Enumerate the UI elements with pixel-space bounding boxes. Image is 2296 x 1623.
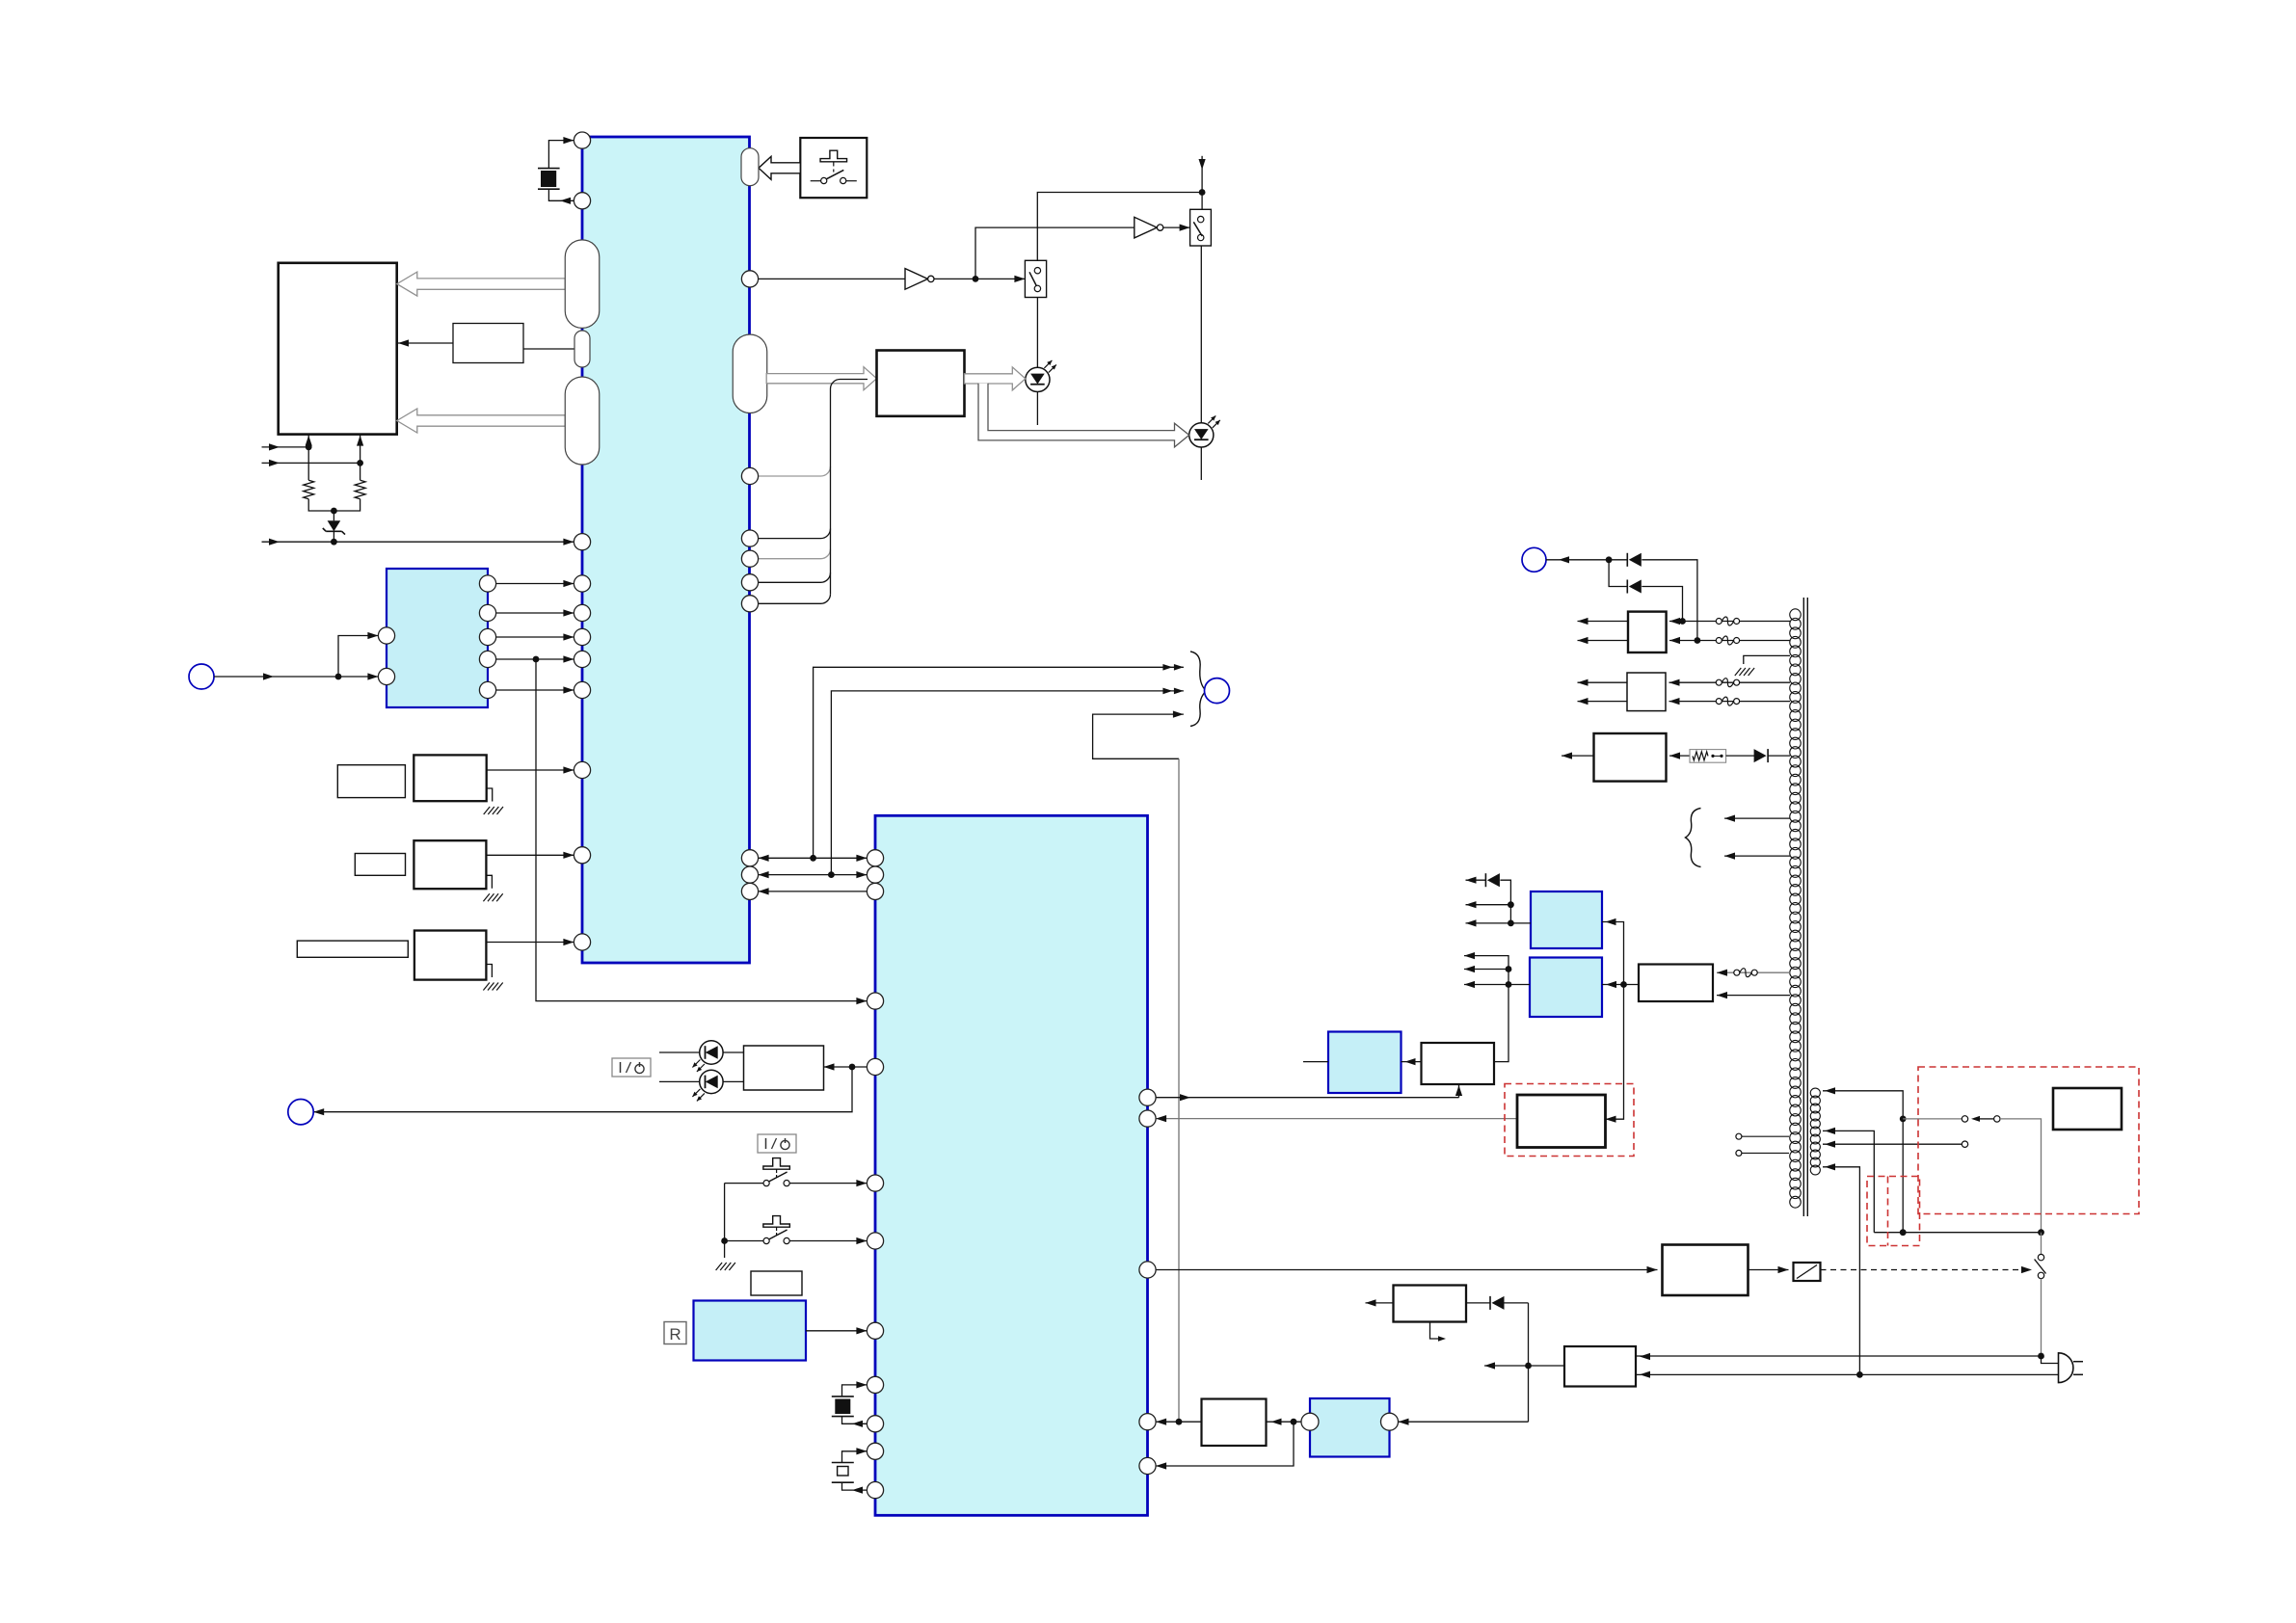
- arrow into block11: [1271, 1419, 1282, 1425]
- pin blockD left: [1301, 1413, 1319, 1430]
- vertical from diode D7 net: [1528, 1303, 1530, 1422]
- SW2 stem: [776, 1227, 778, 1231]
- arrow into block3 in1: [1669, 618, 1680, 625]
- wire D10 to winding: [1768, 755, 1790, 757]
- arrow out blockB chain: [1464, 952, 1475, 959]
- arrow into blockD pin: [1399, 1419, 1409, 1425]
- pin U3 out5: [479, 681, 495, 698]
- arrow into CN4: [1559, 556, 1569, 563]
- LED D2 bottom lead: [1200, 447, 1202, 480]
- block4 output wires: [1578, 681, 1628, 683]
- pin U2 remote: [867, 1322, 883, 1339]
- IR LED D4: [700, 1070, 723, 1093]
- power switch wire to vertical: [2000, 1119, 2042, 1233]
- supply line from top: [1201, 156, 1203, 210]
- transformer T1 primary winding: [1810, 1088, 1820, 1098]
- wire into blockD right pin: [1399, 1421, 1529, 1423]
- arrow into U1 key pin3: [563, 633, 574, 640]
- wire U3 out5 to U1: [496, 689, 574, 691]
- block5 input wire: [1669, 755, 1690, 757]
- wire IR block to U2: [806, 1330, 867, 1332]
- oscillator label box 3: [297, 941, 408, 957]
- SW1-SW2 common wire: [724, 1184, 726, 1241]
- dashed box around AC-detect relay rect: [1505, 1084, 1634, 1157]
- arrow into U2 SW2 pin: [856, 1237, 867, 1244]
- arrow tap1 into winding: [1825, 1087, 1835, 1094]
- supply wire 2 from left: [262, 462, 360, 464]
- block6 regulator: [1422, 1043, 1495, 1084]
- svg-text:R: R: [669, 1325, 681, 1344]
- stadium pin U1 disp-data: [733, 334, 767, 413]
- pin U1 fan2 wire: [759, 558, 821, 560]
- brace line3 path from power net: [1093, 714, 1184, 758]
- regulator block A (cyan): [1531, 891, 1602, 948]
- power switch wire to contact: [1903, 1118, 1962, 1120]
- resonator X2 body: [832, 1396, 854, 1397]
- pin U1 fan3: [741, 574, 758, 591]
- key matrix box: [800, 138, 867, 198]
- key switch contact right: [841, 177, 846, 183]
- wire small box to U1 pin: [523, 348, 575, 350]
- regulator block C (cyan): [1328, 1032, 1402, 1094]
- ground lead switches: [724, 1241, 726, 1259]
- arrow into U2 bus pin1: [856, 855, 867, 862]
- display driver small box: [453, 324, 523, 363]
- junction LED driver node: [849, 1064, 856, 1071]
- arrow into U1 osc pin3: [563, 939, 574, 945]
- block7 rectifier: [1639, 965, 1713, 1002]
- pin U1 key2: [574, 604, 590, 621]
- pin U3 out2: [479, 604, 495, 621]
- pin U2 X3a: [867, 1443, 883, 1459]
- pin U1 fan4 wire: [759, 602, 821, 604]
- LED D2 (standby LED): [1189, 423, 1214, 447]
- ground switches: [716, 1263, 723, 1270]
- arrow out D11 net: [1466, 877, 1477, 884]
- pin U3 out1: [479, 575, 495, 592]
- ground osc2: [483, 893, 490, 901]
- switch S2 box: [1190, 209, 1212, 246]
- junction on U3 line4: [533, 656, 540, 663]
- arrow into U2 pin (key data): [856, 998, 867, 1004]
- double arrow brace line2: [1174, 688, 1184, 695]
- bus wire U1-U2 2: [759, 874, 868, 876]
- wire junction up to G2: [975, 227, 1135, 279]
- AC wire 2 to block10: [1636, 1373, 2059, 1375]
- pin U2 relay-enable wire: [1156, 1097, 1458, 1099]
- pin U1 bus1: [741, 850, 758, 866]
- junction SW2 common: [721, 1237, 728, 1244]
- SW2 left lead: [725, 1240, 763, 1242]
- arrow up into block6: [1455, 1085, 1462, 1096]
- LED D1 bottom lead: [1036, 392, 1038, 426]
- wire G2 to switch S2: [1163, 226, 1190, 228]
- stadium pin U1 segment-out: [565, 377, 600, 465]
- arrow into U2 bus pin2: [856, 871, 867, 878]
- switch S2 lever: [1193, 222, 1202, 236]
- fusible resistor in box: [1690, 750, 1726, 763]
- junction blockD branch: [1291, 1419, 1297, 1425]
- pin U2 bus3: [867, 883, 883, 899]
- wire U3 out3 to U1: [496, 636, 574, 638]
- arrow into block7 in1: [1717, 970, 1727, 976]
- pin U2 X2a: [867, 1376, 883, 1393]
- pin U2 keyline: [867, 993, 883, 1009]
- arrow into switch S2: [1180, 225, 1190, 231]
- arrow up into display box 1: [306, 436, 312, 446]
- junction D9/in1: [1679, 618, 1686, 625]
- pin U1 fan0: [741, 467, 758, 484]
- display box supply stub 1: [307, 435, 309, 447]
- SW2 right lead: [789, 1240, 867, 1242]
- arrow into U2 SW1 pin: [856, 1180, 867, 1186]
- blockB chain wire: [1464, 956, 1508, 1062]
- arrow into U1 bus pin3: [759, 888, 769, 894]
- junction blockB tap1: [1506, 966, 1512, 972]
- power label box 2: [758, 1134, 796, 1153]
- power control block8: [1663, 1245, 1749, 1296]
- pin U1 key4: [574, 651, 590, 667]
- block11 reset IC: [1202, 1399, 1267, 1447]
- junction supply2/stub2: [357, 460, 363, 466]
- inverter G1: [905, 269, 928, 290]
- arrow into block4 in1: [1669, 679, 1680, 686]
- wire U3 out4 to U1: [496, 658, 574, 660]
- pin U2 in E: [1139, 1457, 1156, 1474]
- block5 rectifier/regulator: [1594, 733, 1667, 782]
- fan bus top curve into arrow: [831, 380, 868, 467]
- arrow into relay coil: [1778, 1266, 1789, 1273]
- wire dashed-box to U2 pinB: [1156, 1118, 1517, 1120]
- connector circle CN4 (power in): [1522, 547, 1546, 572]
- arrow on wire 3: [269, 539, 280, 545]
- junction blockB input: [1506, 981, 1512, 988]
- arrow into block5: [1669, 753, 1680, 759]
- wire S2 to LED2: [1200, 246, 1202, 423]
- block7 output wire to blockB: [1602, 984, 1639, 986]
- junction link/switch vertical: [2038, 1229, 2044, 1236]
- pin U1 fan4: [741, 596, 758, 612]
- resistor R2: [355, 480, 365, 499]
- block7 input wire2: [1717, 995, 1790, 997]
- pin U1 osc3: [574, 934, 590, 950]
- pin U2 in B: [1139, 1110, 1156, 1127]
- block3 rectifier: [1628, 612, 1667, 652]
- diode D7: [1489, 1296, 1491, 1310]
- remote icon box R: [664, 1322, 686, 1344]
- SW1 stem: [776, 1169, 778, 1173]
- power label box 1: [612, 1058, 651, 1077]
- stadium pin U1 dimmer: [574, 331, 590, 367]
- block7 input wire1: [1717, 971, 1790, 973]
- blockB input wire: [1464, 984, 1530, 986]
- power switch contact 1: [1962, 1116, 1967, 1122]
- arrow on supply wire 2: [269, 460, 280, 466]
- primary tap1 wire: [1823, 1091, 1903, 1233]
- junction pinD net: [1176, 1419, 1183, 1425]
- arrow on X1 bottom lead: [560, 198, 571, 204]
- block5 output arrow: [1562, 755, 1594, 757]
- arrow tap4 into winding: [1825, 1163, 1835, 1170]
- LED driver box: [744, 1046, 824, 1090]
- fuse PS2: [1716, 638, 1722, 644]
- zener to power rail: [333, 531, 334, 542]
- junction tap1/power-sw line: [1900, 1116, 1907, 1123]
- tact switch SW2 cap: [763, 1216, 790, 1228]
- IR remote sensor block (cyan): [694, 1301, 807, 1361]
- osc3 ground stub: [486, 965, 492, 978]
- SW1 left lead: [725, 1183, 763, 1184]
- ground osc3: [483, 983, 490, 991]
- pin U1 key1: [574, 575, 590, 592]
- IC U1 system-control microcomputer (large cyan block): [582, 137, 750, 963]
- pin U1 fan1: [741, 530, 758, 546]
- pin U1 XIN: [574, 132, 590, 148]
- X2 top lead: [842, 1385, 868, 1397]
- bus2 riser to connector brace: [831, 691, 1184, 875]
- SW2 lever: [769, 1230, 788, 1239]
- fuse PS4: [1716, 699, 1722, 705]
- tact switch SW1 cap: [763, 1158, 790, 1170]
- switch label box: [751, 1271, 802, 1295]
- arrow into U1 key pin5: [563, 686, 574, 693]
- heater brace lines: [1724, 817, 1790, 819]
- X2 bottom lead: [842, 1417, 868, 1424]
- arrow into switch S1: [1014, 276, 1025, 282]
- zener lead: [333, 511, 334, 520]
- pin U3 out3: [479, 628, 495, 645]
- power rail wire 3 to U1: [262, 541, 574, 543]
- pin U2 out C: [1139, 1262, 1156, 1278]
- junction G1 node: [973, 276, 979, 282]
- primary tap4 wire: [1823, 1167, 1859, 1375]
- power switch wire mid: [1980, 1118, 1994, 1120]
- connector circle CN2 (to servo board): [1205, 678, 1230, 704]
- key switch lever: [826, 170, 843, 178]
- gray power net vertical to pinD: [1178, 758, 1180, 1422]
- stadium pin U1 grid-out: [565, 240, 600, 329]
- X3 bottom lead: [842, 1482, 868, 1490]
- pin U1 fan1 wire: [759, 538, 821, 540]
- pin U1 mute-out: [741, 271, 758, 287]
- arrow on CN1 wire: [263, 673, 274, 679]
- diode D9: [1626, 579, 1628, 593]
- arrow into block7 in2: [1717, 992, 1727, 998]
- junction vertical/blockB line: [1620, 981, 1627, 988]
- wire block9 to diode D7: [1466, 1302, 1490, 1304]
- ground winding tap: [1735, 668, 1742, 676]
- SW2 contacts: [763, 1237, 769, 1243]
- pin U2 X3b: [867, 1482, 883, 1499]
- oscillator label box 2: [355, 854, 405, 876]
- IR LED D4 leads: [659, 1080, 700, 1082]
- arrowhead into display box: [398, 339, 409, 346]
- wire osc1 to U1: [487, 769, 574, 771]
- diode D11 net: [1466, 879, 1486, 881]
- key switch stem: [833, 162, 835, 167]
- arrow into CN3: [313, 1108, 324, 1115]
- junction resistors/zener: [331, 508, 337, 515]
- connector circle CN3 (front panel): [288, 1100, 313, 1125]
- wire U3 out2 to U1: [496, 612, 574, 614]
- crystal X1 bottom lead: [548, 189, 574, 200]
- switch S1 box: [1025, 260, 1046, 297]
- pin U2 sw1: [867, 1175, 883, 1191]
- primary link wire: [1874, 1232, 2041, 1234]
- pin U1 VDD: [574, 534, 590, 550]
- wire CN4 to diode node: [1546, 559, 1627, 561]
- junction diode node: [1606, 556, 1613, 563]
- IR LED D3: [700, 1041, 723, 1064]
- arrow into blockB right: [1606, 981, 1616, 988]
- relay coil box RY1: [1794, 1263, 1821, 1281]
- pin U1 fan2: [741, 550, 758, 567]
- pin U2 in D wire: [1156, 1421, 1201, 1423]
- arrow into U1 key pin4: [563, 655, 574, 662]
- dashed option box large: [1918, 1067, 2139, 1214]
- connector brace right: [1190, 652, 1207, 727]
- heater brace left: [1686, 809, 1701, 867]
- blockA chain tap2 wire: [1466, 922, 1511, 924]
- plug elbow: [2042, 1356, 2059, 1364]
- arrow into U1 bus pin1: [759, 855, 769, 862]
- arrow into U1 key pin2: [563, 609, 574, 616]
- transformer T1 secondary winding: [1790, 609, 1802, 621]
- voltage selector switch wire: [2041, 1233, 2042, 1255]
- switch S1 lever: [1029, 272, 1036, 285]
- pin blockD right: [1381, 1413, 1399, 1430]
- wire osc2 to U1: [486, 854, 574, 856]
- wire U2 pin to LED driver: [824, 1066, 868, 1068]
- double arrow brace line1: [1174, 664, 1184, 671]
- blockA chain tap1 wire: [1466, 904, 1511, 906]
- block3 input wire1: [1669, 621, 1790, 623]
- pin U1 fan0 wire (gray): [759, 475, 821, 477]
- block10 output wire: [1484, 1365, 1564, 1367]
- primary tap3 wire: [1823, 1143, 1962, 1145]
- IR LED D3 leads: [659, 1051, 700, 1053]
- pin U1 fan3 wire: [759, 581, 821, 583]
- junction link/tap1: [1900, 1229, 1907, 1236]
- resistor bottoms join wire: [308, 499, 360, 511]
- selector lever: [2035, 1260, 2046, 1274]
- wire blockD to block11: [1267, 1421, 1302, 1423]
- arrow into U3 pin2: [367, 673, 378, 679]
- AC wire 1 to block10: [1636, 1355, 2042, 1357]
- dashed divider in small box: [1887, 1177, 1889, 1246]
- option block (voltage selector): [2053, 1088, 2122, 1130]
- bus1 riser to connector brace: [814, 667, 1184, 858]
- pin U3 in1: [378, 627, 394, 644]
- selector contact top: [2038, 1254, 2043, 1260]
- wire G1 to junction: [934, 278, 1025, 279]
- SW1 lever: [769, 1172, 788, 1182]
- SW1 contacts: [763, 1181, 769, 1186]
- pin U2 in D: [1139, 1414, 1156, 1430]
- block10 AC detect: [1564, 1346, 1636, 1387]
- branch wire to U2 pinE: [1156, 1422, 1294, 1466]
- pin U2 X2b: [867, 1416, 883, 1432]
- block9 regulator: [1394, 1286, 1467, 1322]
- wire U3 out1 to U1: [496, 583, 574, 585]
- pin U1 osc2: [574, 847, 590, 864]
- wire U1 pin to inverter G1: [759, 278, 905, 279]
- block9 output arrow: [1366, 1302, 1394, 1304]
- pin U2 sw2: [867, 1233, 883, 1249]
- arrow into power block8: [1647, 1266, 1658, 1273]
- wire node down to CN3: [313, 1067, 852, 1112]
- arrow between contacts: [1971, 1116, 1980, 1122]
- block3 input wire2: [1669, 640, 1790, 642]
- wire D8 to riser: [1642, 560, 1697, 641]
- block6 output to blockC: [1402, 1061, 1422, 1063]
- arrow into U1 VDD pin: [563, 539, 574, 545]
- primary tap2 wire: [1823, 1131, 1874, 1232]
- oscillator block 2: [414, 840, 486, 889]
- vertical net right of dashed box: [1602, 922, 1624, 1120]
- inverter G2: [1135, 217, 1158, 238]
- X3 top lead: [842, 1451, 868, 1463]
- blockC left stub: [1303, 1061, 1328, 1063]
- pin U1 key3: [574, 628, 590, 645]
- winding ground tap: [1744, 655, 1790, 664]
- arrow into U3 pin1: [367, 632, 378, 639]
- arrow into dashed rect right: [1606, 1116, 1616, 1123]
- arrow into U1 osc pin1: [563, 766, 574, 773]
- arrow block10 output: [1484, 1362, 1495, 1369]
- arrow into U1 X1-in pin: [563, 137, 574, 144]
- crystal X1 top lead: [548, 141, 574, 169]
- connector circle CN1 (left): [189, 664, 214, 689]
- relay-enable riser into block6: [1458, 1085, 1460, 1098]
- oscillator block 3: [414, 931, 487, 980]
- arrow on X3 bottom lead: [852, 1487, 863, 1494]
- wire D11 to blockA chain: [1500, 880, 1531, 923]
- arrow tap2 into winding: [1825, 1128, 1835, 1134]
- block4 input wire1: [1669, 681, 1791, 683]
- bus wire U1-U2 3: [759, 891, 868, 892]
- oscillator label box 1: [337, 765, 405, 798]
- arrow on X2 bottom lead: [852, 1421, 863, 1427]
- pin U1 bus3: [741, 883, 758, 899]
- pin U2 out A: [1139, 1089, 1156, 1105]
- arrow into U2 X3 pin: [856, 1448, 867, 1454]
- selector contact bottom: [2038, 1272, 2043, 1278]
- ground osc1: [484, 807, 491, 814]
- osc1 ground stub: [487, 788, 493, 802]
- switch S1 contacts: [1034, 268, 1040, 274]
- block9 ground stub: [1430, 1322, 1443, 1340]
- resonator X3 body: [832, 1462, 854, 1464]
- junction top node: [1199, 189, 1206, 196]
- tap3 open contact: [1962, 1141, 1967, 1147]
- arrow up into display box 2: [357, 436, 363, 446]
- wire D7 to vertical: [1505, 1302, 1529, 1304]
- wire small box to display box: [398, 342, 453, 344]
- wire varistor to diode D10: [1726, 755, 1756, 757]
- switch S2 contacts: [1198, 216, 1204, 222]
- arrow into block3 in2: [1669, 637, 1680, 644]
- pin U2 led-drive: [867, 1058, 883, 1075]
- resistor R1 lead: [307, 447, 309, 480]
- wide bus arrow from U1 to display box (segment data): [397, 409, 566, 433]
- wire block8 to relay coil: [1749, 1269, 1789, 1271]
- black hollow pipe arrow to LED D2: [978, 384, 1189, 447]
- pin U3 out4: [479, 651, 495, 667]
- arrow into U1 osc pin2: [563, 852, 574, 859]
- resistor R2 lead: [360, 463, 361, 480]
- fan bus vertical: [830, 466, 832, 594]
